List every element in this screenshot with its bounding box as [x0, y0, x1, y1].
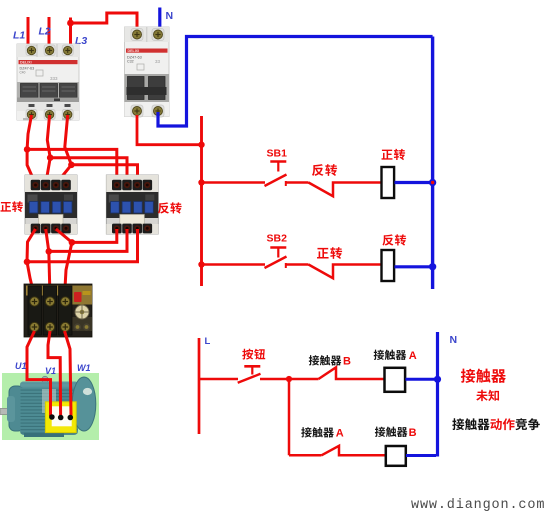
wire KM1 out1 to swap bus3 — [27, 229, 36, 262]
contactor KM2 (reverse) — [106, 175, 158, 234]
label KM1 forward — [1, 202, 12, 212]
svg-text:V1: V1 — [45, 366, 56, 376]
wire SB1 branch from rail — [202, 181, 266, 184]
junction L3 tap — [67, 20, 74, 27]
wire bus2 to relay FR T2 — [49, 251, 50, 297]
wire coil KM1 to rail N — [395, 181, 432, 184]
wire bus3 to relay FR T1 — [27, 262, 35, 297]
NC contact A row2 — [322, 446, 386, 456]
svg-text:L2: L2 — [39, 26, 51, 38]
annotation contactor (red) — [461, 369, 475, 383]
label NC contact A — [301, 427, 311, 437]
svg-text:B: B — [343, 356, 351, 368]
wire relay V1 to motor terminal 2 — [48, 331, 61, 416]
svg-text:L1: L1 — [13, 30, 25, 42]
rail L bottom circuit — [198, 338, 201, 434]
label coil A — [374, 350, 384, 360]
junction bus3 — [24, 259, 31, 266]
wire relay W1 to motor terminal 3 — [65, 331, 72, 416]
junction phase2 — [47, 154, 54, 161]
svg-text:A: A — [336, 428, 344, 440]
wire coil A to N — [406, 378, 437, 381]
breaker QF1 3-pole DELIXI DZ47-63 — [17, 44, 79, 121]
label NC contact forward — [317, 248, 329, 259]
wire L1 supply stub — [28, 17, 32, 50]
pushbutton (button) — [244, 365, 260, 368]
wire branch down to row2 — [288, 379, 291, 455]
control rail L (phase) — [200, 116, 203, 286]
wire phase3 bus to KM2 input — [71, 165, 137, 184]
svg-text:SB2: SB2 — [267, 233, 288, 245]
thermal overload relay FR — [24, 284, 92, 337]
rail N bottom circuit — [436, 332, 439, 457]
wire swap bus3 to KM2 out3 — [27, 229, 138, 262]
wire QF1 pole3 output — [65, 115, 72, 165]
wire swap bus2 to KM2 out2 — [49, 229, 127, 251]
wire phase1 bus to KM2 input — [27, 149, 117, 184]
junction rail L / SB2 branch — [198, 261, 204, 267]
wire coil B to N — [406, 454, 436, 457]
coil contactor A — [385, 368, 406, 392]
junction rail N row2 — [429, 263, 436, 270]
svg-text:N: N — [166, 10, 174, 22]
breaker QF2 2-pole DELIXI DZ47-63 C32 — [125, 27, 170, 117]
motor M (3-phase, photo) — [0, 373, 99, 440]
wire bus1 to relay FR T3 — [65, 242, 72, 297]
label NC contact B — [309, 355, 319, 365]
NC contact KM2 (reverse interlock) — [309, 183, 382, 197]
wire coil KM2 to rail N — [395, 265, 432, 268]
svg-text:C40: C40 — [20, 71, 26, 75]
motor terminal W — [68, 415, 74, 421]
wire KM1 out2 to swap bus2 — [46, 229, 49, 251]
wire phase2 drop to KM1 input — [46, 158, 51, 184]
junction phase3 — [68, 162, 75, 169]
svg-text:W1: W1 — [77, 363, 91, 373]
wire L2 supply stub — [48, 17, 52, 50]
motor terminal V — [58, 415, 64, 421]
label coil B — [375, 427, 385, 437]
wire L3 tap to breaker QF2 — [71, 13, 138, 34]
svg-text:DELIXI: DELIXI — [128, 49, 140, 53]
svg-text:333: 333 — [50, 76, 58, 81]
label coil forward — [382, 150, 393, 160]
label button — [242, 349, 253, 360]
junction branch row2 — [286, 376, 292, 382]
wire QF2 phase output to control rail L — [137, 115, 202, 145]
wire swap bus1 to KM2 out1 — [72, 229, 117, 242]
NC contact KM1 (forward interlock) — [309, 265, 382, 279]
coil contactor B — [386, 446, 406, 466]
coil KM2 reverse — [382, 250, 395, 281]
pushbutton SB2 (NO) — [270, 246, 286, 249]
annotation unknown — [476, 390, 487, 401]
junction phase1 — [24, 146, 31, 153]
wire L3 supply stub — [68, 18, 71, 51]
wire N supply stub — [158, 8, 161, 35]
junction rail L / SB1 branch — [198, 179, 204, 185]
svg-text:DELIXI: DELIXI — [20, 61, 32, 65]
contactor KM1 (forward) — [25, 175, 77, 234]
wire KM1 out3 to swap bus1 — [56, 229, 72, 242]
label coil reverse — [382, 234, 393, 245]
junction bus2 — [46, 248, 53, 255]
wire QF1 pole2 output — [47, 115, 50, 158]
label NC contact reverse — [312, 164, 324, 176]
wire button to NC B — [260, 378, 319, 381]
svg-text:B: B — [409, 427, 417, 439]
label KM2 reverse — [158, 202, 169, 213]
junction N row1 bottom — [434, 376, 441, 383]
svg-text:www.diangon.com: www.diangon.com — [411, 498, 545, 513]
wire L to button — [199, 378, 238, 381]
motor terminal U — [49, 414, 55, 420]
wire phase1 drop to KM1 input — [27, 149, 35, 184]
wire SB2 branch from rail — [202, 263, 266, 266]
wire QF2 neutral output to control rail N — [158, 37, 433, 127]
wire SB1 to KM2 NC contact — [286, 181, 309, 184]
wire phase2 bus to KM2 input — [50, 158, 127, 184]
wire QF1 pole1 output — [27, 115, 31, 149]
junction rail N row1 — [429, 179, 436, 186]
svg-text:33: 33 — [155, 59, 161, 64]
wire relay U1 to motor terminal 1 — [27, 331, 51, 416]
control rail N (neutral) — [431, 37, 434, 290]
annotation contactor action race — [452, 418, 464, 430]
coil KM1 forward — [382, 167, 395, 198]
svg-text:A: A — [409, 350, 417, 362]
svg-text:L: L — [205, 336, 211, 347]
junction bus1 — [69, 239, 76, 246]
svg-text:C32: C32 — [127, 60, 134, 64]
junction rail L / QF2 feed — [198, 142, 204, 148]
svg-text:SB1: SB1 — [267, 148, 288, 160]
wire phase3 drop to KM1 input — [56, 165, 72, 184]
wire row2 to NC A — [289, 454, 322, 457]
pushbutton SB1 (NO) — [270, 160, 286, 163]
wire SB2 to KM1 NC contact — [286, 263, 309, 266]
svg-text:U1: U1 — [15, 361, 27, 371]
svg-text:N: N — [450, 334, 458, 346]
NC contact B row1 — [319, 367, 385, 379]
